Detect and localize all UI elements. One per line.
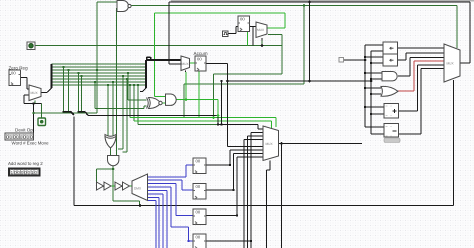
gate XNOR G3 xyxy=(147,97,162,108)
svg-text:Accum: Accum xyxy=(194,51,208,56)
component text labels xyxy=(8,51,208,166)
ALU shifter U3 xyxy=(383,54,398,66)
wire splitter SA spine and root xyxy=(63,112,75,116)
wire splitter S3 root to MUX M1 xyxy=(146,59,181,61)
wire R1 Q to MUX2 xyxy=(206,150,263,165)
wire ALU operand column V2 xyxy=(371,51,384,134)
wire MUX1 select stub xyxy=(185,71,187,73)
wire demux out8 down xyxy=(148,201,157,248)
wire MUX3 select long bottom run xyxy=(74,80,454,206)
probe square stub xyxy=(339,58,344,63)
wire MUX2 output run xyxy=(279,144,363,248)
wire MUX M1 output to Accum xyxy=(190,62,196,64)
svg-text:00: 00 xyxy=(240,17,245,22)
ALU subtractor U5 xyxy=(384,124,399,138)
register Accum xyxy=(195,56,206,71)
wire bus line b2 xyxy=(52,69,147,71)
wire demux out7 down xyxy=(148,198,160,248)
input pin row PR2 xyxy=(9,169,40,176)
wire bus line b7 xyxy=(52,84,147,86)
wire bus line b4 xyxy=(52,75,147,77)
wire Accum bottom vertical xyxy=(198,71,200,118)
svg-text:DMX: DMX xyxy=(134,187,142,191)
register ZeroReg xyxy=(9,70,21,86)
wire input pin K1 run to MUX selects xyxy=(35,41,282,46)
svg-text:00: 00 xyxy=(11,71,16,76)
wire ALU AND output xyxy=(398,58,444,77)
wire demux out6 down xyxy=(148,194,164,248)
wire MUX2 lower feeders xyxy=(244,133,263,248)
svg-text:MUX: MUX xyxy=(257,28,265,32)
svg-text:00: 00 xyxy=(196,235,201,240)
wire splitter S2 leg taps xyxy=(64,67,82,112)
gate AND G2 xyxy=(166,94,177,105)
wire NAND U1 output top run xyxy=(131,6,458,118)
wire AND G2 output run xyxy=(176,72,219,116)
svg-text:MUX: MUX xyxy=(31,91,39,95)
register R4 xyxy=(193,234,206,248)
wire reg B bottom vertical xyxy=(247,32,249,46)
ALU adder U4 xyxy=(384,104,399,119)
register value texts xyxy=(11,17,245,240)
wire splitter S3 root notch xyxy=(147,57,151,60)
gate ALU AND G6 xyxy=(382,72,397,81)
wire splitter SB root run xyxy=(88,116,263,130)
wire XOR-down to AND-down xyxy=(110,148,112,156)
wire ZeroReg Q to mux xyxy=(21,78,30,90)
wire NAND U1 input1 net via bus xyxy=(33,2,117,113)
wire demux out3 to R3 xyxy=(148,184,194,216)
wire bus tap to long green row2 xyxy=(133,85,135,121)
wire NAND U1 input2 vertical xyxy=(116,8,118,155)
label box below subtractor xyxy=(384,138,400,143)
wire bus taps with jogs xyxy=(118,76,127,152)
wire demux out5 down xyxy=(148,191,168,248)
clock CLK1 xyxy=(223,31,229,37)
wire reg B clock xyxy=(228,27,238,34)
wire green pin to zero-mux select xyxy=(35,101,42,119)
wire splitter S2a root xyxy=(42,88,52,93)
wire bus line b1 xyxy=(52,66,147,68)
mux MZ zero-select xyxy=(29,85,41,101)
gate AND-down G5 xyxy=(108,156,119,166)
svg-text:Word # Exec Move: Word # Exec Move xyxy=(12,140,50,145)
demux D1 xyxy=(132,174,148,201)
register R2 xyxy=(193,184,206,200)
window top grey edge xyxy=(171,0,474,1)
svg-text:MUX: MUX xyxy=(266,142,274,146)
wire feedback top green run xyxy=(155,13,286,97)
wire branch to MUX2 row1 xyxy=(221,81,223,125)
wire bus tap to long green row1 xyxy=(129,85,131,118)
buffer chain B1-B4 xyxy=(97,182,130,190)
wire demux out2 to R2 xyxy=(148,180,194,190)
wire reg B output down xyxy=(250,27,257,46)
mux M2 readback xyxy=(263,126,279,161)
wire R2 Q to MUX2 xyxy=(206,154,263,191)
wire big feedback loop xyxy=(169,2,470,64)
wire R4 Q to MUX2 xyxy=(206,240,251,242)
input pin row PR1 xyxy=(5,133,34,140)
wire long row2 to MUX2 edge xyxy=(134,121,272,129)
register R1 xyxy=(193,158,206,174)
wire shifter2 output xyxy=(398,53,445,60)
wire splitter S2a spine xyxy=(51,64,53,88)
wire bus A to ALU xyxy=(343,59,365,61)
wire OR3 output error run xyxy=(398,61,444,91)
wire splitter S3 spine end hook xyxy=(140,88,146,92)
wire XNOR to AND input xyxy=(162,102,165,104)
wire buffer chain line xyxy=(97,185,133,187)
gate ALU OR G7 xyxy=(381,86,398,96)
mux M3 ALU-result xyxy=(444,44,460,82)
svg-text:00: 00 xyxy=(196,210,201,215)
register R3 xyxy=(193,209,206,225)
svg-text:00: 00 xyxy=(196,184,201,189)
wire bus line b0 xyxy=(52,63,147,65)
svg-text:00: 00 xyxy=(196,159,201,164)
wire mux top select stub xyxy=(261,38,263,41)
wire XNOR input taps xyxy=(95,73,148,109)
wire bus B to ALU xyxy=(228,80,372,82)
wire ALU operand column V1 xyxy=(365,45,384,127)
wire pin row1 to zero mux xyxy=(24,95,42,133)
ALU shifter U2 xyxy=(383,42,398,54)
wire shifter1 output xyxy=(398,47,445,49)
wire demux out1 to R1 xyxy=(148,165,194,177)
mux labels xyxy=(31,28,455,191)
wire adder output xyxy=(399,65,445,111)
wire bus tap to dark row3 xyxy=(138,85,218,125)
wire bus line b6 xyxy=(52,81,147,83)
input pin P1 zero-flag xyxy=(27,42,35,50)
svg-text:MUX: MUX xyxy=(447,62,455,66)
svg-text:Add word to reg 2: Add word to reg 2 xyxy=(8,161,43,166)
gate NAND G1 top xyxy=(117,1,129,12)
wire R3 Q to MUX2 xyxy=(206,157,263,216)
mux T2 top xyxy=(256,22,267,38)
wire AND-down output branches xyxy=(97,166,140,206)
register B top xyxy=(238,16,250,32)
svg-text:00: 00 xyxy=(197,57,202,62)
svg-text:Devit Op: Devit Op xyxy=(15,127,33,132)
mux M1 accum-input xyxy=(181,56,190,71)
wire demux out4 to R4 xyxy=(148,187,194,241)
wire bus line b3 xyxy=(52,72,147,74)
wire bus line b5 xyxy=(52,78,147,80)
wire MUX T2 side output down-left-down xyxy=(214,35,283,118)
wire loop branch to bus B xyxy=(309,2,311,81)
wire splitter SB spine and root xyxy=(78,112,89,116)
gate XOR-down G4 xyxy=(105,135,116,149)
svg-text:MUX: MUX xyxy=(182,62,190,66)
wire XOR-down input taps xyxy=(108,82,113,136)
wire splitter S3 spine xyxy=(145,60,147,88)
wire long row to MUX2 select xyxy=(130,118,276,128)
wire Accum output down xyxy=(206,64,263,147)
wire subtractor output xyxy=(399,69,445,135)
wire MUX2 tip select down xyxy=(267,161,271,248)
output pin P2 green xyxy=(38,118,46,126)
